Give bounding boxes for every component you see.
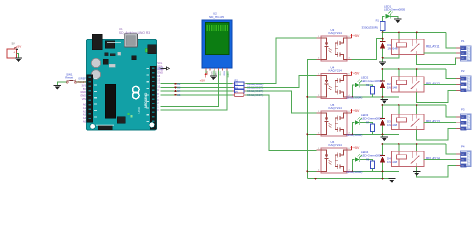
wire to LED LED4: [353, 160, 355, 172]
wire relay COM to P4 bottom: [417, 165, 456, 177]
wire HC-05 GND: [213, 71, 215, 76]
connector P3: [456, 108, 471, 131]
resistor R2 330R: [233, 79, 264, 86]
net label dot D4: [175, 90, 182, 93]
net label dot D5: [175, 94, 182, 97]
svg-text:KAQY214: KAQY214: [329, 69, 343, 73]
optocoupler U4 KAQY214: [317, 65, 352, 98]
svg-text:KAQY214: KAQY214: [329, 106, 343, 110]
svg-text:P1: P1: [461, 39, 465, 43]
svg-text:1N4148: 1N4148: [387, 160, 398, 164]
wire rail to relay RELAY13: [383, 104, 446, 106]
wire resistor to pin3 line: [372, 94, 374, 97]
ground (D1): [379, 62, 386, 66]
ground (HC-05): [210, 76, 217, 80]
Arduino left pin names: [78, 77, 87, 124]
wire relay NO to P4 middle: [424, 159, 456, 161]
svg-text:R4: R4: [235, 86, 239, 90]
ground (battery): [15, 58, 22, 62]
svg-text:5V: 5V: [12, 41, 15, 45]
Arduino header strips: [87, 75, 93, 123]
svg-text:+5V: +5V: [353, 146, 360, 150]
wire D1 to ground: [382, 49, 384, 62]
svg-text:330Ω(330R): 330Ω(330R): [346, 170, 362, 174]
wire node to LED1: [383, 16, 385, 21]
ground (bottom rail): [388, 179, 395, 183]
Arduino UNO R3 board U1: [86, 34, 156, 130]
resistor R8 330R: [346, 159, 375, 174]
svg-text:LED-Green0805: LED-Green0805: [384, 8, 405, 12]
wire relay coil- to ground column: [383, 54, 399, 57]
LED LED2: [355, 80, 362, 88]
svg-text:RXD: RXD: [223, 71, 225, 76]
svg-text:1N4148: 1N4148: [387, 123, 398, 127]
wire to LED LED3: [353, 123, 355, 135]
wire HC-05 RXD to Arduino pin0: [161, 71, 227, 111]
resistor R1 330R: [362, 18, 385, 30]
svg-text:R5: R5: [235, 90, 239, 94]
HC-05 bluetooth module U2: [202, 20, 232, 68]
resistor R4 330R: [233, 86, 264, 93]
terminal arrow (AREF): [157, 67, 169, 70]
svg-text:GND: GND: [80, 94, 86, 98]
svg-text:LED-Green0805: LED-Green0805: [361, 154, 382, 158]
svg-text:SD_HC-05: SD_HC-05: [209, 15, 224, 19]
wire rail to P2 top: [446, 69, 456, 79]
svg-text:+5V: +5V: [16, 44, 21, 48]
connector P2: [456, 69, 471, 92]
connector P4: [456, 144, 471, 167]
svg-text:KAQY214: KAQY214: [329, 143, 343, 147]
relay RELAY13: [391, 114, 440, 129]
relay RELAY11: [391, 39, 439, 54]
battery BT1 5V: [7, 41, 17, 58]
svg-text:LED-Green0805: LED-Green0805: [361, 117, 382, 121]
power flag +5V (battery): [15, 44, 22, 50]
wire +5V (HC-05 VCC): [205, 71, 207, 74]
wire ch1 rail to P1 top: [446, 32, 456, 48]
node column ch1 : R1 to diode to ground: [382, 31, 384, 42]
diode D3 1N4148: [380, 118, 385, 125]
wire U5 pin3 line: [352, 133, 399, 135]
power flag +5V (U6): [351, 146, 360, 151]
ground rail (opto cathodes): [307, 59, 316, 178]
Arduino DC power jack: [92, 34, 102, 50]
ground (D3): [381, 137, 388, 141]
wire R3 to optocoupler U4 input: [246, 76, 317, 88]
wire resistor to pin3 line: [372, 169, 374, 172]
svg-text:IOREF: IOREF: [78, 77, 86, 81]
Arduino USB connector: [124, 34, 137, 47]
connector P1: [456, 39, 471, 61]
HC-05 pins: [206, 68, 230, 78]
wire rail to relay RELAY14: [383, 143, 446, 145]
svg-text:330Ω(330R): 330Ω(330R): [362, 25, 378, 29]
wire LED to resistor R6: [360, 85, 372, 87]
Arduino capacitors: [91, 58, 100, 67]
svg-text:Reset: Reset: [65, 75, 73, 79]
wire relay NO to P3 middle: [424, 122, 456, 124]
power flag +5V (U4): [351, 71, 360, 76]
svg-text:RELAY11: RELAY11: [426, 45, 440, 49]
wire diode to ground: [382, 126, 384, 137]
ground (D2): [381, 99, 388, 103]
wire resistor to pin3 line: [372, 132, 374, 135]
optocoupler U6 KAQY214: [317, 140, 352, 173]
diode D1 1N4148: [380, 41, 385, 48]
Arduino right pin names: [157, 61, 164, 112]
svg-text:GND: GND: [80, 90, 86, 94]
wire Arduino digital pin to R2: [161, 83, 233, 85]
wire relay NO to P1 middle: [424, 52, 456, 54]
Arduino ATmega328 MCU: [105, 84, 115, 118]
wire diode to ground: [382, 163, 384, 179]
svg-text:P4: P4: [461, 144, 465, 148]
wire R4 to optocoupler U5 input: [246, 91, 317, 113]
wire U3 pin3 to node column: [352, 39, 383, 60]
svg-text:+5V: +5V: [353, 109, 360, 113]
wire rail to relay RELAY12: [383, 68, 446, 70]
wire Arduino digital pin to R3: [161, 86, 233, 88]
resistor R6 330R: [346, 84, 375, 99]
wire battery to ground: [17, 53, 19, 57]
resistor R5 330R: [233, 90, 264, 97]
wire ch1 top rail to relay: [383, 31, 446, 33]
wire rail to P3 top: [446, 105, 456, 117]
svg-text:+: +: [13, 51, 15, 55]
svg-text:R2: R2: [235, 79, 239, 83]
svg-text:RESET: RESET: [78, 80, 87, 84]
wire HC-05 TXD to Arduino pin1: [161, 71, 219, 107]
LED D LED1: [386, 11, 393, 19]
ground (LED1): [394, 19, 401, 23]
Arduino logo: [133, 86, 140, 93]
resistor R3 330R: [233, 82, 264, 89]
svg-text:P2: P2: [461, 69, 465, 73]
LED LED3: [355, 117, 362, 125]
wire relay COM to P3 bottom: [417, 128, 456, 140]
svg-text:5V: 5V: [83, 87, 86, 91]
optocoupler U5 KAQY214: [317, 103, 352, 136]
diode D2 1N4148: [380, 81, 385, 88]
wire LED to resistor R8: [360, 160, 372, 162]
wire SW1 to ground: [57, 82, 66, 85]
power flag +5V (U5): [351, 109, 360, 114]
wire rail to P4 top: [446, 144, 456, 154]
svg-text:KAQY214: KAQY214: [329, 31, 343, 35]
svg-text:330Ω(330R): 330Ω(330R): [346, 95, 362, 99]
switch SW1 Reset: [65, 72, 76, 83]
svg-text:VIN: VIN: [82, 97, 86, 101]
svg-text:330Ω(330R): 330Ω(330R): [346, 133, 362, 137]
wire diode to ground: [382, 88, 384, 99]
wire LED1 to ground: [390, 16, 398, 19]
wire R2 to optocoupler U3 input: [246, 38, 317, 84]
optocoupler U3 KAQY214: [317, 28, 352, 61]
power flag +5V (HC-05): [200, 73, 207, 83]
wire relay NO to P2 middle: [424, 83, 456, 85]
net label dot D3: [175, 86, 182, 89]
relay RELAY14: [391, 151, 440, 166]
wire relay COM to P1 bottom: [417, 54, 456, 64]
wire Arduino digital pin to R4: [161, 90, 233, 92]
wire relay COM to P2 bottom: [417, 90, 456, 102]
svg-text:R1: R1: [376, 18, 380, 22]
svg-text:R3: R3: [235, 82, 239, 86]
wire LED to resistor R7: [360, 123, 372, 125]
LED LED4: [355, 154, 362, 162]
svg-text:P3: P3: [461, 108, 465, 112]
svg-text:1N4148: 1N4148: [387, 86, 398, 90]
svg-text:LED-Green0805: LED-Green0805: [361, 79, 382, 83]
svg-text:3V3: 3V3: [81, 83, 86, 87]
svg-text:UNO: UNO: [137, 106, 141, 113]
wire to LED LED2: [353, 85, 355, 97]
bottom ground rail: [307, 178, 392, 180]
node column D4: [382, 144, 384, 156]
svg-text:+5V: +5V: [200, 78, 205, 82]
ground (relay RELAY14): [413, 172, 420, 176]
node column D2: [382, 69, 384, 82]
svg-text:+5V: +5V: [353, 34, 360, 38]
node column D3: [382, 105, 384, 119]
wire SW1 to Arduino RESET: [76, 81, 87, 83]
power flag +5V (U3): [351, 34, 360, 39]
diode D4 1N4148: [380, 155, 385, 162]
wire U6 pin3 line: [352, 170, 399, 172]
wire Arduino digital pin to R5: [161, 94, 233, 96]
relay RELAY12: [391, 77, 440, 92]
ground (SW1): [54, 85, 61, 89]
wire U4 pin3 line: [352, 96, 399, 98]
svg-text:+5V: +5V: [353, 72, 360, 76]
wire R5 to optocoupler U6 input: [246, 95, 317, 151]
resistor R7 330R: [346, 122, 375, 137]
net label dot D2: [175, 83, 182, 86]
